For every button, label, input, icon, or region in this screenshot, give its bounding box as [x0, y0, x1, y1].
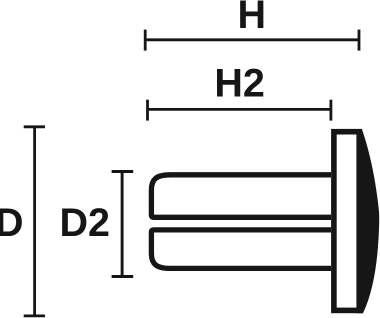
dimension line H2 — [148, 100, 331, 121]
dimension line D2 — [112, 172, 134, 277]
svg-text:D2: D2 — [59, 201, 110, 245]
rivet shank upper prong — [151, 175, 331, 218]
dimension line D — [24, 127, 45, 316]
svg-text:H: H — [238, 0, 267, 37]
rivet shank lower prong — [151, 230, 331, 269]
dimension line H — [145, 30, 359, 51]
rivet head flange — [334, 132, 359, 311]
svg-text:H2: H2 — [214, 62, 265, 106]
rivet head dome — [356, 129, 380, 313]
svg-text:D: D — [0, 201, 24, 245]
